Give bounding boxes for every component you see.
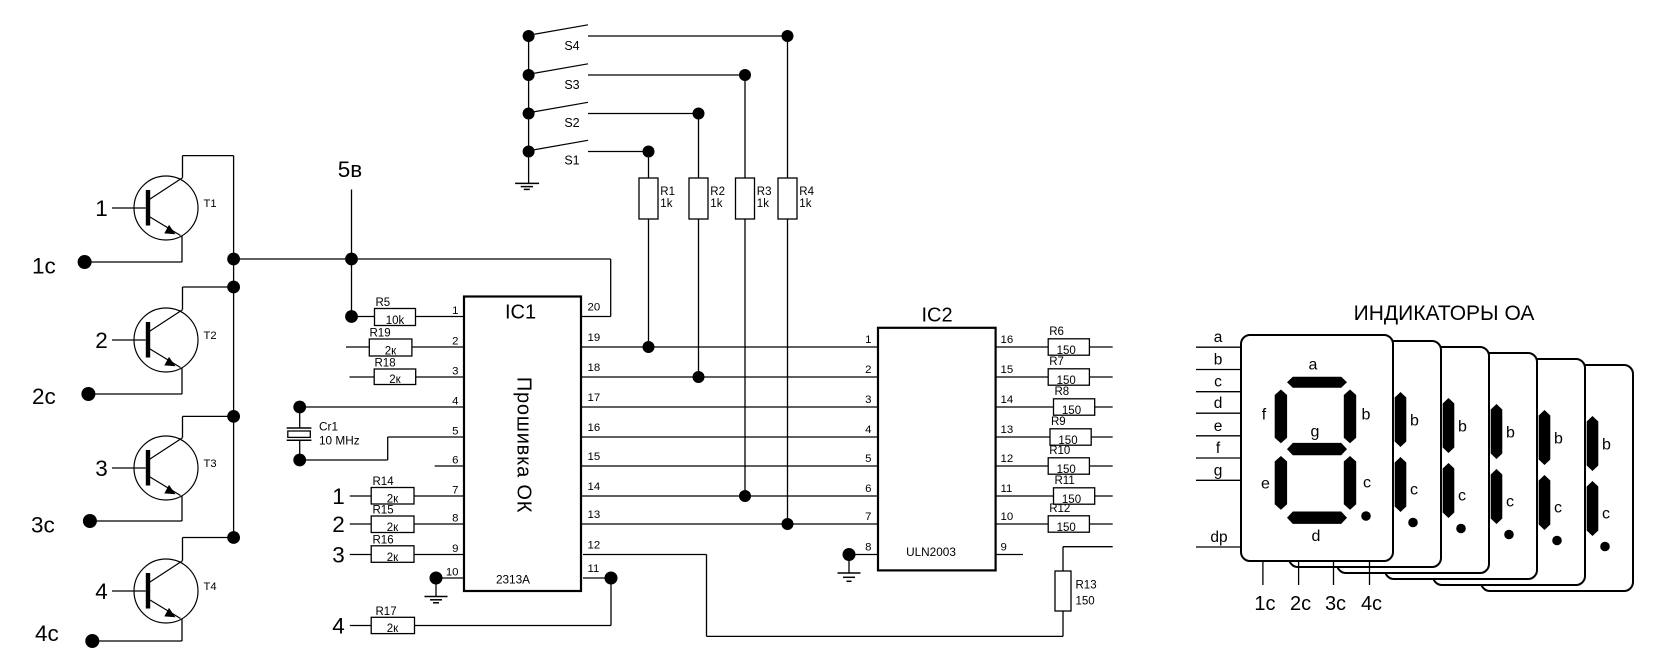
svg-text:2к: 2к [385,346,397,358]
svg-text:S4: S4 [564,39,579,53]
svg-text:1c: 1c [1254,593,1275,615]
display input g [1196,462,1241,480]
svg-text:16: 16 [588,422,601,434]
display input a [1196,329,1241,347]
display input b [1196,352,1241,370]
svg-text:R15: R15 [373,505,394,517]
svg-text:1k: 1k [710,198,722,210]
emitter wire T2 to node 2c [88,368,182,395]
svg-text:9: 9 [1001,542,1007,554]
switch column wire [528,36,530,183]
crystal Cr1 10 MHz [287,407,360,460]
svg-text:3: 3 [95,456,108,481]
svg-text:2: 2 [95,328,108,353]
wire S3 to R3 [744,75,746,178]
svg-text:8: 8 [452,513,458,525]
svg-text:IC1: IC1 [505,302,536,324]
segment dp dot [1361,511,1371,521]
svg-text:4: 4 [452,396,458,408]
svg-text:c: c [1554,500,1562,517]
svg-text:R17: R17 [376,606,397,618]
display pin 1c [1254,561,1275,615]
junction crystal top [293,401,306,414]
ground (IC2 pin 8) [838,555,861,582]
resistor R2 1k [689,178,725,219]
junction T3 collector [227,410,240,423]
svg-text:14: 14 [588,481,601,493]
junction S4 output [782,30,794,42]
IC1 pin numbers right [588,302,601,576]
wire IC1 pin 14 to IC2 pin 6 [581,495,878,497]
emitter wire T4 to node 4c [92,619,182,642]
svg-text:f: f [1216,440,1221,457]
collector wire T1 [183,156,234,178]
svg-text:1: 1 [95,196,108,221]
svg-text:4: 4 [95,579,108,604]
wire pin 10 to ground [436,577,464,579]
svg-text:17: 17 [588,392,601,404]
svg-text:c: c [1363,475,1371,492]
resistor R14 2k [332,476,464,509]
collector wire T3 [183,416,234,437]
switch S2 [523,102,588,130]
svg-text:c: c [1602,506,1610,523]
junction R1 bus [643,341,655,353]
svg-text:S3: S3 [564,78,579,92]
svg-text:10 MHz: 10 MHz [319,434,360,448]
svg-text:10: 10 [1001,511,1014,523]
svg-text:R19: R19 [370,328,391,340]
transistor T3 [134,436,217,500]
collector bus wire (vertical) [233,156,235,538]
wire S4 to R4 [787,36,789,178]
junction S3 output [739,69,751,81]
wire IC1 pin 12 to R13 [583,555,1063,637]
svg-text:3c: 3c [31,513,55,538]
svg-text:10k: 10k [386,315,405,327]
svg-text:2c: 2c [32,384,56,409]
junction pin 11 [605,572,618,585]
svg-text:13: 13 [1001,424,1014,436]
junction R4 bus [782,518,794,530]
svg-text:15: 15 [588,451,601,463]
wire IC1 pin 19 to IC2 pin 1 [581,346,878,348]
svg-text:1c: 1c [32,254,56,279]
svg-text:2313А: 2313А [496,572,530,586]
svg-text:b: b [1602,437,1611,454]
svg-text:R3: R3 [757,186,772,198]
svg-text:7: 7 [865,511,871,523]
svg-text:150: 150 [1057,522,1076,534]
resistor R9 150 [996,416,1113,447]
svg-text:a: a [1309,357,1318,374]
indicator digit 4 (behind) [1385,353,1537,579]
junction T4 collector [227,531,240,544]
wire IC2 pin 8 to ground [849,554,878,556]
segment c [1344,456,1356,510]
resistor R15 2k [332,505,464,538]
junction R5 / 5v [345,310,358,323]
svg-text:T4: T4 [204,581,217,593]
svg-text:g: g [1214,462,1223,479]
svg-text:3: 3 [332,543,345,568]
node 2c [32,384,95,409]
junction S2 output [693,108,705,120]
svg-text:15: 15 [1001,364,1014,376]
svg-text:R9: R9 [1051,416,1066,428]
collector wire T4 [183,538,234,561]
wire S4 output [588,35,788,37]
svg-text:3: 3 [452,366,458,378]
segment g [1287,443,1347,455]
svg-text:6: 6 [865,483,871,495]
svg-text:2: 2 [865,364,871,376]
wire S1 output [588,151,649,153]
resistor R5 10k [352,297,465,327]
svg-text:6: 6 [452,455,458,467]
svg-text:e: e [1261,476,1270,493]
svg-text:1k: 1k [660,198,672,210]
svg-text:R12: R12 [1049,503,1070,515]
svg-text:11: 11 [588,563,600,575]
svg-text:R13: R13 [1076,580,1097,592]
segment f [1275,390,1287,444]
wire pin 6 stub [435,465,464,467]
svg-text:2: 2 [452,336,458,348]
svg-text:R18: R18 [375,358,396,370]
base wire and label 1 [95,196,146,221]
svg-text:14: 14 [1001,394,1014,406]
svg-text:2к: 2к [387,552,399,564]
svg-text:16: 16 [1001,334,1014,346]
segment e [1275,456,1287,510]
svg-text:R2: R2 [710,186,725,198]
svg-text:ИНДИКАТОРЫ ОА: ИНДИКАТОРЫ ОА [1354,302,1535,325]
resistor R6 150 [996,326,1113,357]
segment b [1344,390,1356,444]
wire S2 output [588,113,699,115]
node 4c [35,621,99,648]
junction crystal bottom [293,454,306,467]
svg-text:b: b [1458,419,1467,436]
resistor R1 1k [639,178,675,219]
svg-text:f: f [1262,407,1267,424]
display input c [1196,374,1241,392]
display pin 4c [1361,561,1382,615]
wire S2 to R2 [698,114,700,179]
IC IC1 2313A [464,297,581,592]
svg-text:R10: R10 [1049,445,1070,457]
wire R2 to bus row [698,219,700,377]
svg-text:1: 1 [865,334,871,346]
svg-text:c: c [1410,482,1418,499]
switch S1 [523,140,588,167]
resistor R18 2k [350,358,465,387]
resistor R7 150 [996,356,1113,387]
svg-text:e: e [1214,418,1223,435]
svg-text:R6: R6 [1049,326,1064,338]
svg-text:R1: R1 [660,186,675,198]
resistor R11 150 [996,475,1113,506]
wire S1 to R1 [648,152,650,179]
svg-text:20: 20 [588,302,601,314]
svg-text:18: 18 [588,362,601,374]
svg-text:S2: S2 [564,116,579,130]
wire R1 to bus row [648,219,650,347]
junction S1 output [643,146,655,158]
svg-text:1: 1 [452,305,458,317]
svg-text:9: 9 [452,543,458,555]
base wire and label 4 [95,579,146,604]
svg-text:S1: S1 [564,153,579,167]
svg-text:5в: 5в [338,157,362,182]
switch S4 [523,25,588,53]
collector wire T2 [183,287,234,310]
wire IC1 pin 13 to IC2 pin 7 [581,523,878,525]
display pin 3c [1325,561,1346,615]
transistor T4 [134,559,217,623]
junction 5v bus [345,253,358,266]
IC IC2 ULN2003 [878,305,996,571]
svg-text:dp: dp [1210,529,1227,546]
svg-text:c: c [1458,488,1466,505]
IC2 pin numbers right [1001,334,1014,554]
segment a [1287,377,1347,388]
svg-text:R14: R14 [373,476,395,488]
indicator digit 2 (behind) [1289,341,1441,567]
svg-text:2c: 2c [1290,593,1311,615]
wire IC1 pin 18 to IC2 pin 2 [581,376,878,378]
base wire and label 2 [95,328,146,353]
ground (switch column) [515,183,539,189]
svg-text:a: a [1214,329,1223,346]
svg-text:IC2: IC2 [921,305,952,327]
svg-text:R16: R16 [373,534,394,546]
svg-text:4c: 4c [35,621,59,646]
svg-text:b: b [1410,413,1419,430]
svg-text:11: 11 [1001,483,1013,495]
svg-text:2: 2 [332,512,345,537]
svg-text:2к: 2к [389,374,401,386]
svg-text:g: g [1311,423,1320,440]
resistor R12 150 [996,503,1113,534]
svg-text:c: c [1506,494,1514,511]
junction R3 bus [739,490,751,502]
svg-text:Cr1: Cr1 [319,420,338,434]
resistor R3 1k [736,178,772,219]
wire IC1 pin 15 to IC2 pin 5 [581,465,878,467]
base wire and label 3 [95,456,146,481]
svg-text:2к: 2к [387,623,399,635]
segment d [1287,512,1347,524]
svg-text:R4: R4 [799,186,814,198]
svg-text:R8: R8 [1055,386,1070,398]
svg-text:3c: 3c [1325,593,1346,615]
IC1 pin numbers left [446,305,459,579]
wire S3 output [588,74,745,76]
resistor R13 150 [1055,547,1113,637]
indicator digit 1 (front) [1241,335,1393,561]
junction T1 collector bus [227,253,240,266]
wire crystal to pin 5 [300,437,464,460]
svg-text:b: b [1506,425,1515,442]
emitter wire T3 to node 3c [90,496,182,522]
resistor R16 2k [332,534,464,567]
transistor T1 [134,176,217,240]
emitter wire T1 to node 1c [85,236,182,263]
svg-text:12: 12 [588,540,601,552]
wire R4 to bus row [787,219,789,524]
svg-text:5: 5 [865,453,871,465]
svg-text:5: 5 [452,426,458,438]
node 3c [31,513,97,538]
svg-text:Прошивка ОК: Прошивка ОК [513,377,535,513]
svg-text:ULN2003: ULN2003 [906,545,956,559]
switch S3 [523,64,588,92]
segment labels [1261,357,1371,546]
svg-text:R7: R7 [1049,356,1064,368]
svg-text:b: b [1362,407,1371,424]
transistor T2 [134,308,217,372]
resistor R17 2k [332,606,414,639]
svg-text:d: d [1214,395,1223,412]
svg-text:19: 19 [588,332,601,344]
svg-text:3: 3 [865,394,871,406]
resistor R8 150 [996,386,1113,417]
display pin 2c [1290,561,1311,615]
svg-text:b: b [1554,431,1563,448]
wire IC1 pin 16 to IC2 pin 4 [581,436,878,438]
indicator digit 5 (behind) [1433,359,1585,585]
junction T2 collector [227,281,240,294]
resistor R4 1k [778,178,815,219]
svg-text:T3: T3 [204,458,217,470]
svg-text:1: 1 [332,484,345,509]
indicator digit 3 (behind) [1337,347,1489,573]
svg-text:4: 4 [332,614,345,639]
main +5v horizontal wire to pin 20 [234,259,611,317]
svg-text:7: 7 [452,485,458,497]
svg-text:150: 150 [1076,596,1095,608]
wire pin 4 to crystal [300,406,464,408]
wire IC2 pin 9 stub [996,554,1023,556]
svg-text:R5: R5 [376,297,391,309]
svg-text:10: 10 [446,567,459,579]
display input e [1196,418,1241,436]
junction IC2 pin 8 [843,548,856,561]
svg-text:c: c [1214,374,1222,391]
svg-text:b: b [1214,352,1223,369]
svg-text:4: 4 [865,424,871,436]
resistor R10 150 [996,445,1113,476]
svg-text:8: 8 [865,542,871,554]
junction R2 bus [693,371,705,383]
svg-text:T1: T1 [204,198,217,210]
display input d [1196,395,1241,413]
svg-text:R11: R11 [1055,475,1075,487]
wire IC1 pin 17 to IC2 pin 3 [581,406,878,408]
svg-text:4c: 4c [1361,593,1382,615]
wire R17 to pin 11 [415,578,612,626]
indicator digit 6 (behind) [1481,365,1633,591]
IC2 pin numbers left [865,334,871,554]
node 1c [32,254,92,279]
ground (IC1 pin 10) [425,578,448,603]
power 5v vertical wire [351,190,353,317]
wire R3 to bus row [744,219,746,496]
resistor R19 2k [346,328,464,358]
svg-text:12: 12 [1001,453,1014,465]
svg-text:1k: 1k [757,198,769,210]
junction pin 10 [430,572,443,585]
svg-text:T2: T2 [204,330,217,342]
svg-text:2к: 2к [387,522,399,534]
display input dp [1196,529,1241,547]
display input f [1196,440,1241,458]
svg-text:1k: 1k [799,198,811,210]
svg-text:13: 13 [588,509,601,521]
svg-text:d: d [1312,528,1321,545]
